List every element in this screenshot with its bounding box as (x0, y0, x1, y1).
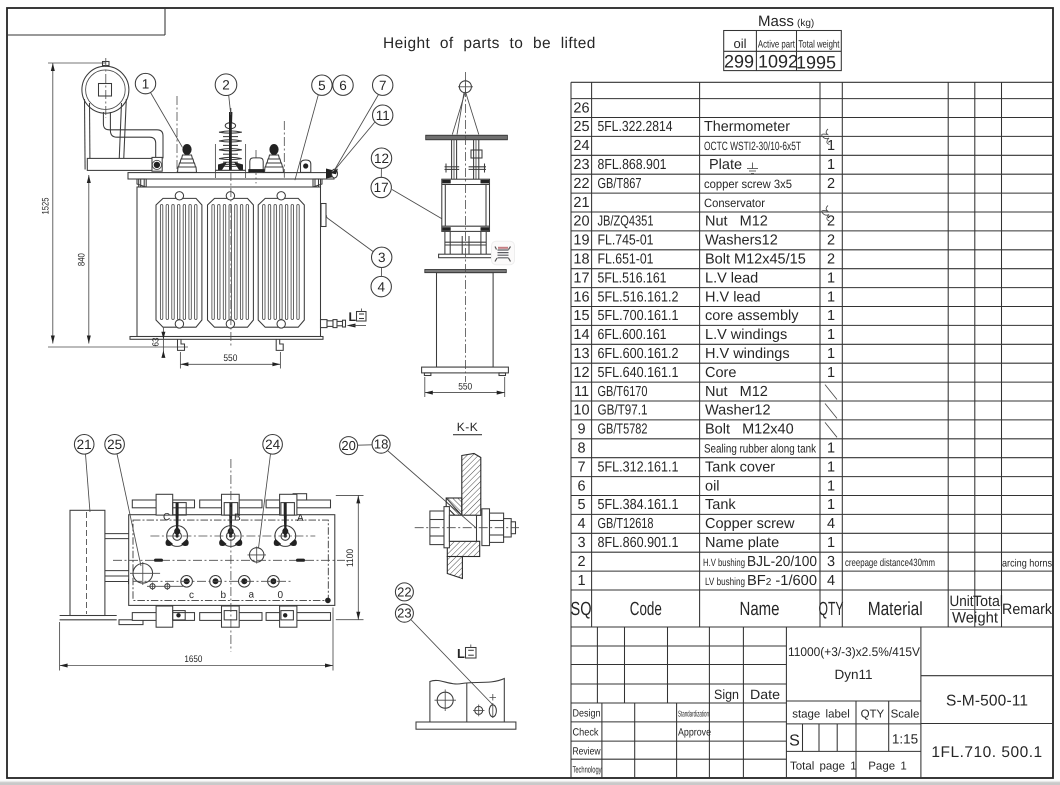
svg-text:Washers12: Washers12 (705, 233, 778, 249)
hook (458, 80, 473, 95)
K-K upper wall hatched (462, 454, 481, 516)
svg-text:Name: Name (740, 599, 780, 620)
tank feet (178, 339, 284, 350)
svg-text:12: 12 (573, 365, 589, 381)
svg-text:3: 3 (827, 554, 835, 570)
radiator panel 2 (208, 192, 254, 328)
svg-text:L.V lead: L.V lead (705, 270, 758, 286)
K-K centerline (415, 527, 519, 529)
svg-text:6: 6 (339, 78, 347, 93)
svg-text:BJL-20/100: BJL-20/100 (747, 554, 817, 570)
svg-text:Code: Code (630, 599, 662, 620)
svg-text:2: 2 (222, 77, 230, 92)
svg-text:18: 18 (374, 437, 388, 452)
tank (lifting view) (422, 270, 509, 376)
svg-text:Design: Design (573, 708, 601, 720)
top-left corner box (7, 8, 165, 35)
svg-text:GB/T97.1: GB/T97.1 (598, 403, 648, 419)
lifted cover plate (426, 135, 508, 140)
svg-text:4: 4 (827, 573, 835, 589)
LV bushings c b a 0 (top view) (181, 576, 279, 588)
svg-text:Conservator: Conservator (704, 196, 765, 210)
bottom edge blocks (156, 606, 297, 627)
svg-text:5: 5 (577, 497, 585, 513)
svg-text:GB/T5782: GB/T5782 (598, 422, 648, 438)
radiator panel 1 (156, 192, 202, 328)
K-K lower wall hatched (447, 541, 479, 578)
table header (571, 593, 1053, 627)
svg-text:a: a (249, 590, 255, 601)
L detail screw oval (489, 694, 496, 718)
conservator straps (85, 99, 127, 170)
title block grid left (571, 627, 786, 778)
dimension 550 (lifting) (425, 377, 505, 397)
svg-text:Tank cover: Tank cover (705, 459, 775, 475)
svg-text:24: 24 (265, 437, 281, 452)
svg-text:1:15: 1:15 (892, 732, 918, 747)
tank bottom plate (130, 337, 323, 340)
sling lines (452, 92, 479, 135)
svg-text:0: 0 (278, 590, 284, 601)
svg-text:14: 14 (573, 327, 589, 343)
svg-text:Scale: Scale (891, 709, 920, 721)
HV bushing A/B/C (top view) (165, 515, 188, 546)
rating block (788, 645, 921, 682)
svg-text:4: 4 (827, 516, 835, 532)
svg-text:2: 2 (827, 176, 835, 192)
callout 6 (333, 75, 353, 95)
svg-text:1: 1 (827, 459, 835, 475)
conservator bracket (87, 157, 162, 171)
svg-text:17: 17 (374, 180, 389, 195)
svg-text:11: 11 (574, 384, 589, 400)
svg-text:FL.745-01: FL.745-01 (598, 233, 654, 249)
svg-text:1100: 1100 (345, 549, 356, 567)
tank inner dashed wall (133, 520, 328, 600)
radiator 1 fins (160, 205, 197, 320)
L detail box (430, 679, 504, 723)
oil gauge circle (item 25 target) (130, 562, 160, 585)
shackle plates (445, 164, 487, 173)
svg-text:840: 840 (77, 253, 88, 266)
svg-text:K-K: K-K (457, 420, 479, 434)
svg-text:Height of parts to be lifted: Height of parts to be lifted (383, 35, 596, 52)
qty group brace rows 21/20 (822, 206, 830, 222)
bottom edge bars (132, 613, 330, 621)
svg-text:26: 26 (573, 100, 589, 116)
svg-text:stage label: stage label (792, 709, 850, 721)
svg-text:4: 4 (577, 516, 585, 532)
svg-text:5FL.322.2814: 5FL.322.2814 (598, 119, 673, 135)
svg-text:5: 5 (318, 78, 326, 93)
svg-text:7: 7 (379, 78, 387, 93)
tank outline (top view) (129, 515, 335, 606)
radiator 2 fins (212, 205, 249, 320)
svg-text:12: 12 (374, 151, 389, 166)
svg-text:550: 550 (458, 381, 472, 392)
svg-text:1: 1 (827, 365, 835, 381)
svg-text:Bolt M12x40: Bolt M12x40 (705, 422, 794, 438)
svg-text:Approve: Approve (678, 727, 711, 739)
svg-text:5FL.312.161.1: 5FL.312.161.1 (598, 459, 679, 475)
svg-text:SQ: SQ (571, 599, 592, 620)
drawing numbers (921, 676, 1053, 724)
svg-text:core assembly: core assembly (705, 308, 799, 324)
svg-text:5FL.516.161.2: 5FL.516.161.2 (598, 289, 679, 305)
callout 17 (371, 177, 456, 226)
callout 3 (326, 215, 392, 268)
svg-text:1: 1 (827, 478, 835, 494)
svg-text:GB/T867: GB/T867 (598, 176, 642, 192)
svg-text:1092: 1092 (758, 52, 798, 72)
svg-text:24: 24 (573, 138, 589, 154)
conservator wheel (82, 58, 129, 118)
svg-text:23: 23 (397, 606, 411, 621)
callout 11 (330, 105, 393, 174)
svg-text:25: 25 (573, 119, 589, 135)
callout 4 (371, 268, 391, 297)
svg-text:Thermometer: Thermometer (704, 119, 790, 135)
hanger channels (452, 140, 482, 179)
svg-text:20: 20 (341, 438, 355, 453)
svg-text:8FL.868.901: 8FL.868.901 (598, 157, 667, 173)
callout 1 (135, 73, 182, 147)
lifting lug on cover (301, 160, 311, 172)
dimension 840 (48, 175, 188, 347)
LV bushing left (front) (178, 144, 197, 172)
svg-text:6FL.600.161: 6FL.600.161 (598, 327, 667, 343)
dimension 63 (151, 328, 166, 358)
svg-text:21: 21 (573, 195, 589, 211)
lower clamp feet (445, 232, 486, 254)
svg-text:5FL.700.161.1: 5FL.700.161.1 (598, 308, 679, 324)
tank body (137, 187, 321, 337)
phase labels C B A (163, 512, 304, 524)
dimension 550 (front) (180, 352, 280, 369)
svg-text:299: 299 (724, 52, 754, 72)
svg-text:H.V windings: H.V windings (705, 346, 790, 362)
callout 22 (395, 583, 413, 601)
parts table grid (571, 82, 1053, 627)
svg-text:1525: 1525 (41, 198, 52, 215)
svg-text:3: 3 (378, 250, 386, 265)
svg-text:Unit: Unit (950, 593, 975, 610)
tap changer box (front) (248, 158, 264, 173)
thermometer circle (item 24) (248, 547, 267, 564)
svg-text:oil: oil (733, 36, 746, 51)
svg-text:L.V windings: L.V windings (705, 327, 787, 343)
L detail base plate (416, 722, 516, 729)
svg-text:1995: 1995 (796, 53, 836, 73)
svg-text:6: 6 (577, 478, 585, 494)
tank cover plate (128, 173, 334, 187)
svg-text:Material: Material (868, 599, 923, 620)
svg-text:LV bushing: LV bushing (705, 576, 745, 588)
LV bushing right (front) (265, 144, 284, 172)
svg-text:Nut M12: Nut M12 (705, 214, 768, 230)
svg-text:Core: Core (705, 365, 736, 381)
svg-text:1: 1 (827, 497, 835, 513)
base bar (439, 254, 493, 258)
svg-text:20: 20 (573, 214, 589, 230)
svg-text:22: 22 (573, 176, 589, 192)
svg-text:1: 1 (577, 573, 585, 589)
svg-text:25: 25 (107, 437, 122, 452)
svg-text:2: 2 (827, 233, 835, 249)
watermark stamp (492, 241, 515, 265)
svg-text:Bolt M12x45/15: Bolt M12x45/15 (705, 252, 806, 268)
svg-text:creepage distance430mm: creepage distance430mm (845, 557, 935, 569)
cover edge pin (items 7/11 target) (326, 169, 338, 179)
svg-text:L: L (457, 646, 465, 661)
svg-text:Sign: Sign (714, 687, 739, 702)
svg-text:18: 18 (573, 252, 589, 268)
svg-text:C: C (163, 512, 170, 523)
svg-text:1: 1 (827, 441, 835, 457)
svg-text:QTY: QTY (819, 599, 844, 620)
svg-text:17: 17 (573, 270, 589, 286)
svg-text:63: 63 (151, 338, 161, 347)
svg-text:22: 22 (397, 584, 411, 599)
sign date (714, 687, 780, 702)
svg-text:Total page 1: Total page 1 (790, 761, 857, 773)
callout 7 (334, 75, 393, 171)
svg-text:copper screw 3x5: copper screw 3x5 (704, 177, 792, 191)
svg-text:8: 8 (577, 441, 585, 457)
svg-text:oil: oil (705, 478, 720, 494)
svg-text:11: 11 (376, 108, 390, 123)
svg-text:Weight: Weight (952, 610, 999, 627)
K-K label (453, 420, 482, 435)
drain valve (front bottom right) (321, 320, 346, 328)
callout 12 (371, 148, 391, 177)
svg-text:1: 1 (827, 289, 835, 305)
lifting view centerline (464, 72, 466, 382)
svg-text:A: A (297, 513, 304, 524)
K-K bolt hex head (430, 511, 444, 545)
svg-text:1: 1 (827, 270, 835, 286)
svg-text:B: B (234, 513, 241, 524)
svg-text:13: 13 (573, 346, 589, 362)
leader 18 overlay (449, 504, 477, 528)
svg-text:2: 2 (577, 554, 585, 570)
svg-text:FL.651-01: FL.651-01 (598, 252, 654, 268)
svg-text:Washer12: Washer12 (705, 403, 771, 419)
svg-text:1: 1 (827, 308, 835, 324)
K-K bolt end (504, 519, 512, 537)
L detail big hole (435, 690, 457, 712)
svg-text:Date: Date (750, 687, 780, 702)
L label (457, 645, 476, 662)
approval rows (573, 708, 712, 775)
callout 20 (340, 437, 372, 455)
svg-text:BF2 -1/600: BF2 -1/600 (747, 573, 817, 589)
svg-text:10: 10 (573, 403, 589, 419)
svg-text:QTY: QTY (861, 709, 885, 721)
K-K nut (490, 513, 504, 542)
svg-text:GB/T12618: GB/T12618 (598, 516, 654, 532)
svg-text:Name plate: Name plate (705, 535, 779, 551)
svg-text:4: 4 (377, 279, 385, 294)
qty group brace rows 25/24 (822, 129, 830, 145)
svg-text:L: L (349, 310, 357, 324)
svg-text:Copper screw: Copper screw (705, 516, 795, 532)
cover flange tabs (139, 179, 321, 187)
svg-text:OCTC WSTI2-30/10-6x5T: OCTC WSTI2-30/10-6x5T (704, 139, 801, 153)
dimension 1100 (336, 495, 364, 619)
svg-text:Mass: Mass (758, 13, 794, 30)
svg-text:1: 1 (142, 76, 150, 91)
svg-text:21: 21 (77, 437, 92, 452)
svg-text:Page 1: Page 1 (868, 761, 906, 773)
svg-text:Tank: Tank (705, 497, 736, 513)
dimension 1525 (41, 63, 107, 344)
scan edge shadow at bottom (0, 781, 1060, 783)
callout 5 (295, 75, 332, 180)
K-K flange block crosshatched (446, 498, 462, 516)
centerlines (top view) (113, 459, 345, 652)
name plate on tank wall (321, 204, 326, 227)
svg-text:3: 3 (577, 535, 585, 551)
callout 21 (74, 435, 94, 513)
svg-text:Nut M12: Nut M12 (705, 384, 768, 400)
svg-text:Check: Check (573, 727, 600, 739)
svg-text:550: 550 (223, 353, 237, 364)
svg-text:Remark: Remark (1002, 601, 1052, 618)
svg-text:Review: Review (573, 746, 601, 758)
svg-text:5FL.384.161.1: 5FL.384.161.1 (598, 497, 679, 513)
svg-text:S-M-500-11: S-M-500-11 (946, 693, 1028, 710)
svg-text:b: b (221, 590, 227, 601)
callout 24 (259, 435, 283, 549)
svg-text:15: 15 (573, 308, 589, 324)
svg-text:Active part: Active part (758, 39, 795, 51)
svg-text:7: 7 (577, 459, 585, 475)
svg-text:16: 16 (573, 289, 589, 305)
radiator panel 3 (258, 192, 304, 328)
conservator pipes (105, 534, 134, 585)
svg-text:arcing horns: arcing horns (1002, 558, 1052, 570)
svg-text:8FL.860.901.1: 8FL.860.901.1 (598, 535, 679, 551)
svg-text:S: S (789, 733, 800, 750)
svg-text:GB/T6170: GB/T6170 (598, 384, 648, 400)
dark corner dot (325, 598, 331, 604)
svg-text:Standardization: Standardization (678, 709, 709, 719)
svg-text:5FL.516.161: 5FL.516.161 (598, 270, 667, 286)
svg-text:19: 19 (573, 233, 589, 249)
svg-text:1: 1 (827, 346, 835, 362)
lv labels (189, 590, 284, 602)
top edge bars (132, 494, 330, 508)
svg-text:11000(+3/-3)x2.5%/415V: 11000(+3/-3)x2.5%/415V (788, 645, 921, 659)
svg-text:9: 9 (577, 422, 585, 438)
conservator (top view) (60, 510, 143, 624)
svg-text:1FL.710. 500.1: 1FL.710. 500.1 (931, 744, 1042, 761)
callout 23 (395, 604, 493, 705)
svg-text:23: 23 (573, 157, 589, 173)
phase centerlines front view (177, 96, 284, 346)
svg-text:H.V lead: H.V lead (705, 289, 761, 305)
svg-text:Dyn11: Dyn11 (834, 667, 872, 682)
callout 25 (105, 435, 141, 567)
stage/scale grid (786, 627, 921, 778)
svg-text:JB/ZQ4351: JB/ZQ4351 (598, 214, 654, 230)
K-K washer right (482, 509, 490, 546)
L detail small hole (473, 705, 485, 717)
small plugs (147, 583, 183, 591)
callout 2 (215, 74, 237, 115)
K-K washer left (444, 507, 449, 548)
top edge blocks (156, 494, 297, 515)
bottom edge bolt squares (173, 611, 294, 620)
svg-text:5FL.640.161.1: 5FL.640.161.1 (598, 365, 679, 381)
svg-text:6FL.600.161.2: 6FL.600.161.2 (598, 346, 679, 362)
svg-text:H.V bushing: H.V bushing (703, 557, 745, 569)
svg-text:1: 1 (827, 327, 835, 343)
dimension 1650 (60, 608, 333, 671)
L direction mark (front) (347, 309, 367, 328)
svg-text:1: 1 (827, 138, 835, 154)
svg-text:2: 2 (827, 252, 835, 268)
svg-text:Total weight: Total weight (798, 39, 839, 51)
svg-text:Plate: Plate (709, 157, 742, 173)
callout 18 (372, 435, 476, 528)
conservator pipe (103, 112, 163, 158)
svg-text:(kg): (kg) (797, 18, 814, 29)
svg-text:c: c (189, 590, 194, 601)
K-K bolt shaft (449, 515, 476, 541)
active part box (442, 179, 490, 231)
top edge clamp squares + stems (173, 503, 295, 515)
svg-text:Sealing rubber along tank: Sealing rubber along tank (704, 442, 817, 456)
svg-text:1: 1 (827, 535, 835, 551)
svg-text:Total: Total (973, 593, 1003, 610)
svg-text:Technology: Technology (573, 765, 602, 775)
radiator 3 fins (263, 205, 300, 320)
svg-text:1: 1 (827, 157, 835, 173)
svg-text:1650: 1650 (184, 654, 202, 665)
HV bushing (front) (215, 112, 245, 170)
